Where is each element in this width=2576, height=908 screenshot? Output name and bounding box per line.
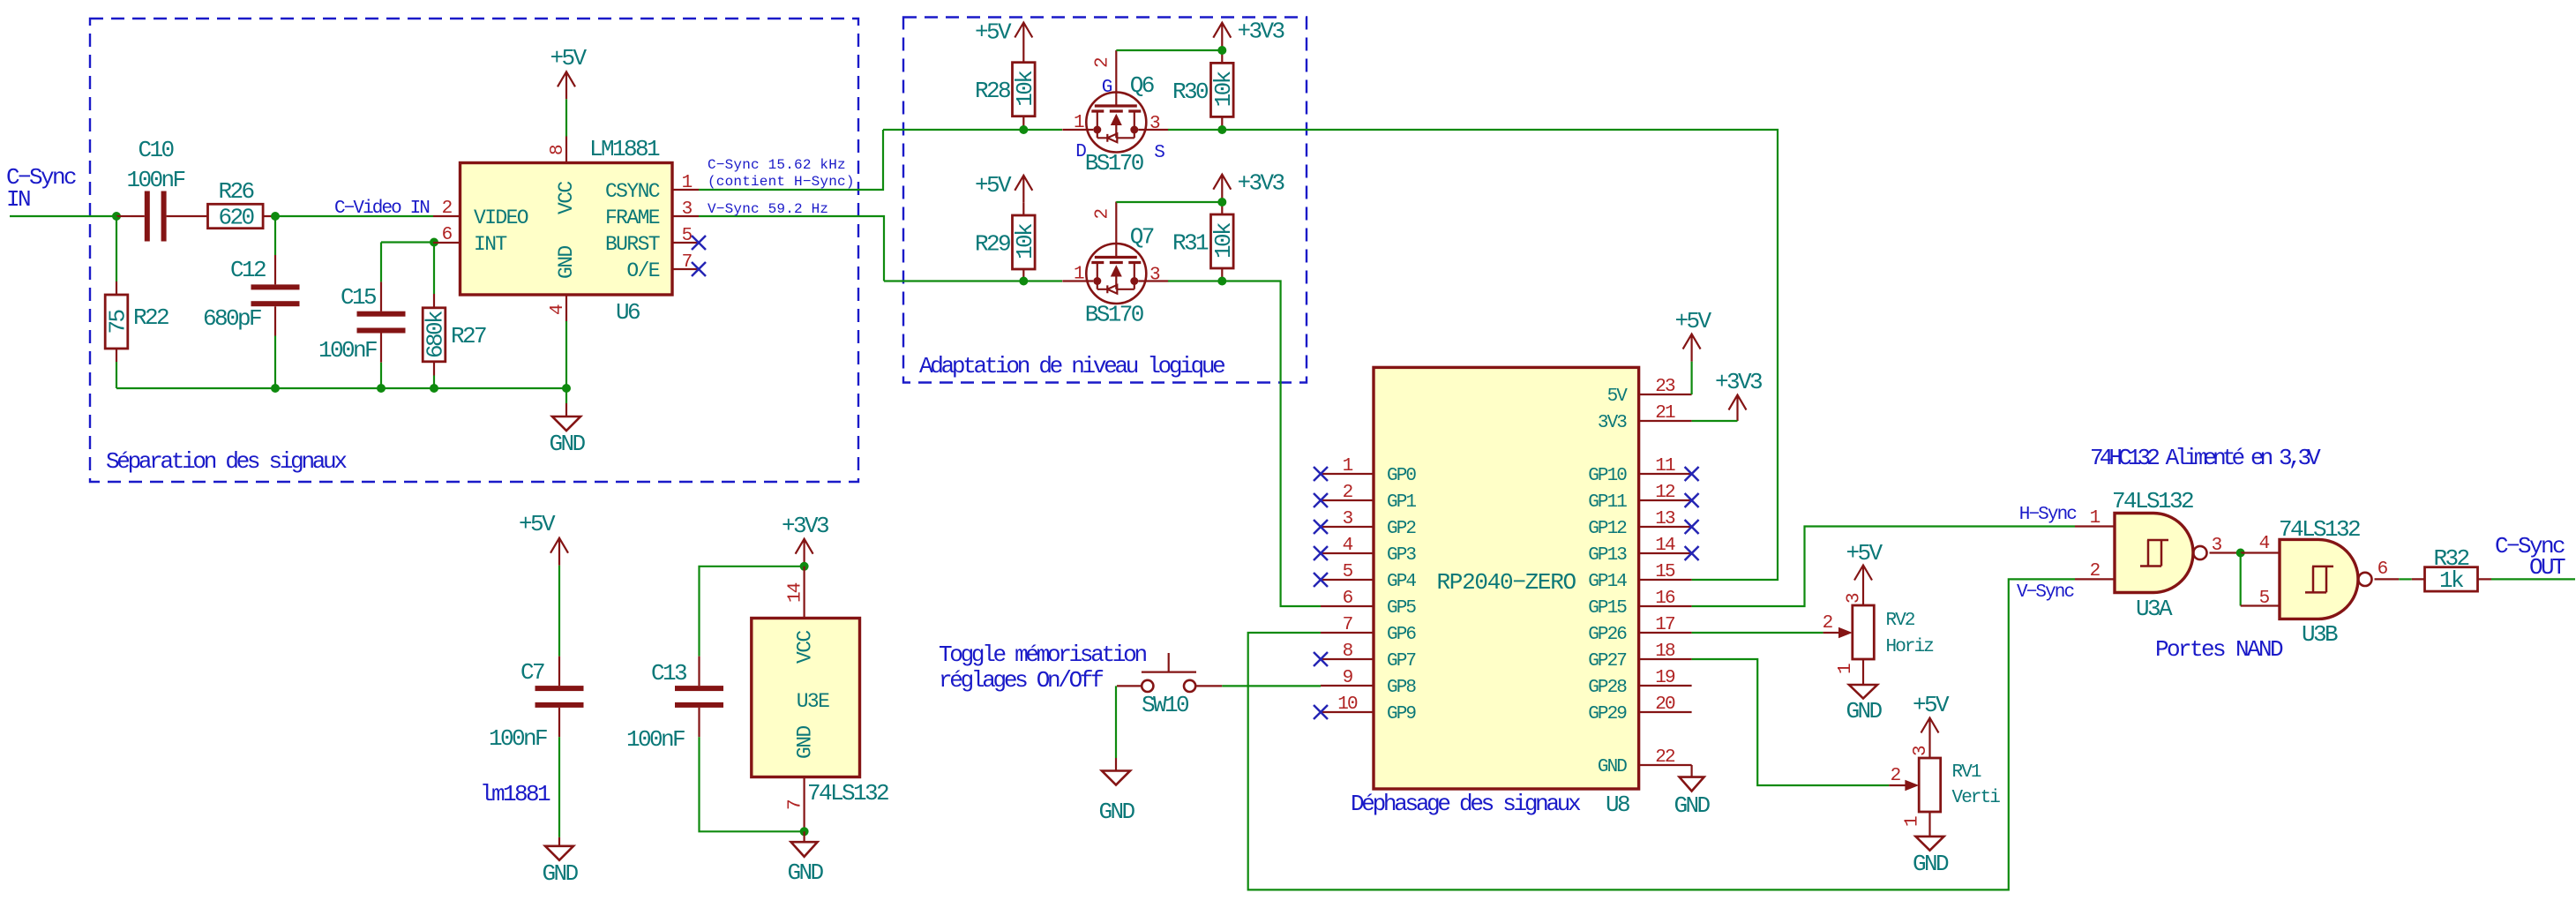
svg-text:GP4: GP4: [1387, 572, 1416, 592]
svg-text:R29: R29: [975, 231, 1010, 258]
svg-text:R26: R26: [218, 178, 253, 205]
svg-text:+3V3: +3V3: [782, 513, 828, 539]
svg-text:10k: 10k: [1012, 71, 1038, 107]
node junction C15/bus: [377, 384, 386, 393]
svg-text:R28: R28: [975, 78, 1010, 104]
svg-text:3: 3: [1149, 266, 1160, 286]
wire U3A out to U3B pin4: [2241, 552, 2280, 553]
svg-text:74LS132: 74LS132: [2279, 516, 2360, 543]
svg-text:GND: GND: [1913, 851, 1949, 877]
svg-text:10k: 10k: [1210, 71, 1237, 107]
svg-text:6: 6: [442, 225, 453, 245]
svg-text:OUT: OUT: [2529, 554, 2565, 581]
ground GND below U6: [549, 403, 585, 457]
svg-text:U3E: U3E: [797, 690, 829, 713]
svg-text:H−Sync: H−Sync: [2019, 505, 2078, 525]
svg-text:+5V: +5V: [550, 45, 587, 71]
svg-text:7: 7: [786, 800, 806, 810]
wire U3B out to R32: [2399, 578, 2412, 580]
ground GND below RV2: [1846, 672, 1882, 724]
svg-text:R27: R27: [451, 323, 486, 349]
svg-text:22: 22: [1655, 747, 1675, 768]
svg-text:VIDEO: VIDEO: [474, 206, 528, 229]
node junction at U6 pin6: [430, 238, 438, 247]
svg-text:GP8: GP8: [1387, 678, 1416, 698]
resistor R26 620: [196, 178, 275, 231]
svg-text:+5V: +5V: [1846, 540, 1883, 567]
wire GP26 to RV2 wiper: [1692, 632, 1823, 634]
power +5V above R28: [975, 19, 1032, 50]
svg-text:5: 5: [682, 226, 693, 246]
no-connect U8 left pin y=747: [1314, 652, 1328, 666]
wire SW10 to GP8: [1222, 685, 1321, 687]
power +3V3 above R31: [1213, 170, 1284, 202]
label C-Sync IN: [6, 164, 76, 213]
no-connect U8 right pin y=567: [1685, 493, 1699, 507]
svg-text:U8: U8: [1606, 792, 1629, 818]
svg-text:+5V: +5V: [1913, 692, 1950, 718]
no-connect U8 left pin y=567: [1314, 493, 1328, 507]
svg-text:18: 18: [1655, 642, 1675, 662]
svg-text:12: 12: [1655, 483, 1675, 503]
wire R32 to C-Sync OUT: [2491, 578, 2575, 580]
svg-text:C−Video IN: C−Video IN: [334, 199, 429, 219]
svg-text:GND: GND: [549, 431, 585, 457]
op-amp/IC U6 LM1881 sync separator: [433, 136, 699, 326]
wire junction to C10: [116, 215, 131, 217]
wire V-Sync output of U6 pin3: [699, 216, 884, 281]
svg-text:Verti: Verti: [1952, 788, 2001, 808]
svg-text:100nF: 100nF: [489, 725, 547, 752]
wire +3V3 junction to C13 top: [700, 567, 805, 657]
dashed box: Separation des signaux: [90, 19, 858, 482]
svg-text:GP13: GP13: [1588, 545, 1627, 566]
svg-text:2: 2: [2090, 561, 2100, 582]
svg-text:16: 16: [1655, 589, 1675, 609]
power +3V3 at U8 pin21: [1715, 369, 1762, 421]
wire Q7 source to GP5: [1168, 281, 1321, 607]
svg-text:GP1: GP1: [1387, 492, 1416, 513]
node junction R29 bottom: [1019, 277, 1028, 286]
node junction right of R26: [271, 212, 280, 221]
svg-text:GP27: GP27: [1588, 651, 1626, 672]
label C-Sync OUT: [2495, 533, 2565, 581]
svg-text:1: 1: [1343, 456, 1353, 477]
svg-text:Portes NAND: Portes NAND: [2155, 636, 2283, 663]
svg-text:LM1881: LM1881: [589, 136, 660, 162]
node junction U3E pin7/C13/GND: [800, 827, 809, 836]
svg-text:9: 9: [1343, 668, 1353, 688]
svg-text:3: 3: [682, 199, 693, 220]
svg-text:3V3: 3V3: [1598, 413, 1627, 433]
svg-text:V−Sync: V−Sync: [2017, 582, 2075, 603]
no-connect U8 left pin y=537: [1314, 467, 1328, 481]
svg-text:GP29: GP29: [1588, 704, 1627, 724]
ground GND at U8 pin22: [1674, 765, 1710, 819]
label C-Sync 15.62 kHz (contient H-Sync): [708, 157, 855, 190]
svg-text:6: 6: [1343, 589, 1353, 609]
node junction +3V3/C13/U3E pin14: [800, 562, 809, 571]
node junction at R22 top: [112, 212, 121, 221]
wire S-row of Q7 (from U6 pin3): [884, 280, 1062, 281]
no-connect U8 right pin y=597: [1685, 520, 1699, 534]
svg-text:BS170: BS170: [1085, 150, 1143, 176]
capacitor C13 100nF: [626, 657, 723, 753]
svg-text:1: 1: [1074, 265, 1084, 285]
svg-text:3: 3: [1149, 114, 1160, 134]
svg-text:D: D: [1075, 142, 1086, 162]
svg-text:GP15: GP15: [1588, 598, 1627, 619]
wire R26 to U6 pin2: [275, 215, 433, 217]
resistor R28 10k pull-up: [975, 50, 1038, 131]
svg-text:U6: U6: [616, 299, 640, 326]
wire 5V pin23: [1690, 362, 1692, 394]
svg-text:GP3: GP3: [1387, 545, 1416, 566]
svg-text:14: 14: [786, 582, 806, 603]
svg-text:14: 14: [1655, 536, 1675, 556]
svg-text:réglages On/Off: réglages On/Off: [939, 667, 1103, 694]
potentiometer RV1 Verti: [1889, 746, 2000, 828]
node junction R30 bottom: [1217, 125, 1226, 134]
svg-text:17: 17: [1655, 615, 1674, 635]
svg-text:7: 7: [1343, 615, 1352, 635]
svg-text:GP0: GP0: [1387, 466, 1416, 486]
NAND gate U3A 74LS132: [2075, 488, 2241, 622]
no-connect U6 pin5: [692, 236, 706, 250]
node junction R31 bottom: [1217, 277, 1226, 286]
svg-text:GND: GND: [787, 859, 823, 886]
svg-text:GP11: GP11: [1588, 492, 1627, 513]
node junction R27/bus: [430, 384, 438, 393]
svg-text:1: 1: [1836, 664, 1856, 674]
svg-text:C12: C12: [230, 257, 266, 283]
svg-text:7: 7: [682, 252, 692, 273]
svg-text:Toggle mémorisation: Toggle mémorisation: [939, 642, 1146, 668]
svg-text:23: 23: [1655, 377, 1675, 397]
svg-text:Q7: Q7: [1130, 224, 1154, 251]
svg-text:GP14: GP14: [1588, 572, 1627, 592]
svg-text:74LS132: 74LS132: [2112, 488, 2193, 514]
wire SW10 to GND: [1115, 686, 1117, 758]
no-connect U6 pin7: [692, 262, 706, 276]
NAND gate U3B 74LS132: [2259, 516, 2400, 648]
resistor R32 1k: [2412, 545, 2491, 594]
wire +5V to C7: [558, 566, 560, 657]
node junction U3A output: [2236, 549, 2245, 558]
wire D-row of Q6: [883, 129, 1062, 131]
potentiometer RV2 Horiz: [1823, 593, 1934, 675]
svg-text:G: G: [1102, 78, 1112, 98]
power +5V above RV2: [1846, 540, 1883, 593]
svg-text:+5V: +5V: [975, 19, 1012, 46]
svg-text:VCC: VCC: [794, 631, 817, 664]
svg-text:GND: GND: [1098, 799, 1134, 825]
svg-text:Horiz: Horiz: [1886, 637, 1934, 657]
svg-text:U3A: U3A: [2136, 596, 2173, 622]
svg-text:680pF: 680pF: [203, 305, 261, 332]
svg-text:+5V: +5V: [1674, 308, 1711, 334]
power +5V above U8 pin23: [1674, 308, 1711, 362]
svg-text:10k: 10k: [1210, 222, 1237, 259]
resistor R22 75: [105, 216, 169, 388]
svg-text:100nF: 100nF: [318, 337, 377, 364]
svg-text:1: 1: [682, 173, 693, 193]
node junction R30 top gate net: [1217, 46, 1226, 55]
svg-text:GND: GND: [542, 860, 578, 887]
svg-text:GP10: GP10: [1588, 466, 1627, 486]
ground GND below SW10: [1098, 758, 1134, 825]
svg-text:+5V: +5V: [975, 172, 1012, 199]
svg-text:3: 3: [1343, 509, 1353, 529]
dashed box: Adaptation de niveau logique: [903, 18, 1307, 383]
wire Q7 gate net to R31: [1116, 201, 1222, 203]
svg-text:GP6: GP6: [1387, 625, 1416, 645]
svg-text:5: 5: [2259, 589, 2270, 609]
ground GND below U3E: [787, 831, 823, 886]
svg-text:15: 15: [1655, 562, 1675, 582]
svg-text:620: 620: [218, 205, 253, 231]
capacitor C10 100nF: [126, 137, 196, 242]
svg-text:C10: C10: [138, 137, 173, 163]
wire C7 to GND: [558, 737, 560, 837]
power +3V3 above R30: [1213, 19, 1284, 50]
svg-text:BS170: BS170: [1085, 302, 1143, 328]
wire ground bus of box1: [116, 387, 566, 389]
svg-text:1: 1: [1903, 816, 1923, 827]
wire 3V3 pin21: [1692, 420, 1738, 422]
svg-text:75: 75: [105, 310, 131, 334]
svg-text:GP2: GP2: [1387, 519, 1416, 539]
power +5V above C7: [519, 511, 568, 566]
svg-text:74LS132: 74LS132: [807, 780, 888, 807]
svg-text:74HC132 Alimenté en 3,3V: 74HC132 Alimenté en 3,3V: [2090, 445, 2321, 471]
svg-text:GP7: GP7: [1387, 651, 1415, 672]
svg-text:C−Sync 15.62 kHz: C−Sync 15.62 kHz: [708, 157, 846, 173]
svg-text:Q6: Q6: [1130, 72, 1154, 99]
node junction R31 top gate net: [1217, 198, 1226, 206]
svg-text:100nF: 100nF: [126, 167, 184, 193]
wire C-Sync output of U6 pin1: [699, 130, 883, 190]
ground GND below RV1: [1913, 825, 1949, 877]
svg-text:RP2040−ZERO: RP2040−ZERO: [1437, 569, 1576, 596]
svg-text:GND: GND: [1598, 757, 1627, 777]
svg-text:2: 2: [1891, 766, 1901, 786]
svg-text:INT: INT: [474, 233, 506, 256]
wire GP15 to H-Sync: [1692, 527, 2075, 607]
svg-text:3: 3: [1845, 593, 1865, 604]
power +5V above R29: [975, 172, 1032, 203]
svg-text:C15: C15: [341, 284, 376, 311]
capacitor C15 100nF: [318, 243, 406, 389]
svg-text:10k: 10k: [1012, 223, 1038, 259]
svg-text:GND: GND: [1674, 792, 1710, 819]
wire U6 pin6 to C15: [381, 241, 434, 243]
svg-text:CSYNC: CSYNC: [605, 180, 660, 203]
svg-text:GP5: GP5: [1387, 598, 1416, 619]
no-connect U8 left pin y=657: [1314, 573, 1328, 587]
svg-text:Déphasage des signaux: Déphasage des signaux: [1351, 791, 1581, 817]
wire U3A out down to U3B pin5: [2240, 553, 2242, 606]
svg-text:3: 3: [1911, 746, 1931, 756]
power +5V above U6: [550, 45, 587, 99]
svg-text:680k: 680k: [423, 311, 449, 358]
svg-text:20: 20: [1655, 694, 1675, 715]
svg-text:5V: 5V: [1607, 386, 1629, 407]
node junction C12/bus: [271, 384, 280, 393]
svg-text:U3B: U3B: [2302, 621, 2338, 648]
ground GND below C7: [542, 837, 578, 887]
no-connect U8 right pin y=627: [1685, 546, 1699, 560]
svg-text:SW10: SW10: [1142, 692, 1188, 718]
resistor R30 10k pull-up: [1172, 50, 1237, 130]
svg-text:2: 2: [1823, 613, 1833, 634]
svg-text:GP12: GP12: [1588, 519, 1627, 539]
svg-text:8: 8: [1343, 642, 1353, 662]
wire +5V to U6 pin8: [565, 99, 567, 136]
svg-text:R30: R30: [1172, 79, 1208, 105]
wire GP6 to V-Sync bottom route: [1248, 579, 2075, 889]
wire junction down to R27: [433, 243, 435, 295]
svg-text:V−Sync 59.2 Hz: V−Sync 59.2 Hz: [708, 201, 828, 217]
svg-text:BURST: BURST: [605, 233, 660, 256]
svg-text:1: 1: [2090, 508, 2100, 529]
transistor Q6 BS170: [1062, 50, 1168, 176]
no-connect U8 left pin y=807: [1314, 705, 1328, 719]
svg-text:+5V: +5V: [519, 511, 556, 537]
svg-text:C7: C7: [520, 659, 544, 686]
svg-text:11: 11: [1655, 456, 1675, 477]
svg-text:21: 21: [1655, 403, 1675, 424]
svg-text:8: 8: [548, 145, 568, 155]
no-connect U8 right pin y=537: [1685, 467, 1699, 481]
svg-text:4: 4: [2259, 534, 2270, 554]
svg-text:GND: GND: [555, 246, 578, 279]
power +5V above RV1: [1913, 692, 1950, 746]
svg-text:C13: C13: [651, 660, 686, 687]
svg-text:VCC: VCC: [555, 182, 578, 214]
wire C-Sync IN input: [10, 215, 116, 217]
svg-text:10: 10: [1337, 694, 1358, 715]
svg-text:+3V3: +3V3: [1238, 19, 1284, 45]
node junction GND/bus: [562, 384, 571, 393]
svg-text:S: S: [1154, 143, 1164, 163]
resistor R31 10k pull-up: [1172, 202, 1237, 281]
svg-text:Adaptation de niveau logique: Adaptation de niveau logique: [919, 353, 1224, 379]
svg-text:GP26: GP26: [1588, 625, 1627, 645]
svg-text:RV2: RV2: [1886, 611, 1915, 631]
svg-text:2: 2: [442, 199, 453, 219]
no-connect U8 left pin y=597: [1314, 520, 1328, 534]
svg-text:lm1881: lm1881: [480, 781, 550, 807]
IC U3E 74LS132 power unit: [752, 567, 888, 832]
wire Q6 gate net to R30: [1116, 49, 1222, 51]
svg-text:RV1: RV1: [1952, 762, 1981, 783]
svg-text:O/E: O/E: [626, 259, 659, 282]
svg-text:3: 3: [2212, 536, 2222, 556]
svg-text:19: 19: [1655, 668, 1675, 688]
svg-text:GND: GND: [794, 726, 817, 759]
svg-text:6: 6: [2378, 559, 2388, 580]
resistor R29 10k pull-up: [975, 203, 1038, 281]
switch SW10 push button: [1117, 653, 1222, 718]
transistor Q7 BS170: [1062, 202, 1168, 328]
svg-text:Séparation des signaux: Séparation des signaux: [106, 448, 347, 475]
svg-text:1k: 1k: [2439, 567, 2464, 594]
svg-text:4: 4: [548, 304, 568, 315]
node junction R28 bottom: [1019, 125, 1028, 134]
svg-text:100nF: 100nF: [626, 726, 685, 753]
wire U6 pin4 to bus: [565, 321, 567, 403]
note Toggle memorisation reglages On/Off: [939, 642, 1146, 694]
capacitor C7 100nF: [489, 657, 584, 752]
svg-text:+3V3: +3V3: [1715, 369, 1762, 395]
svg-text:1: 1: [1074, 113, 1084, 133]
svg-text:5: 5: [1343, 562, 1353, 582]
wire GP27 to RV1 wiper: [1692, 659, 1890, 785]
svg-text:2: 2: [1092, 209, 1112, 220]
svg-text:R22: R22: [133, 304, 168, 331]
svg-text:R31: R31: [1172, 230, 1209, 257]
svg-text:FRAME: FRAME: [605, 206, 660, 229]
svg-text:GP9: GP9: [1387, 704, 1416, 724]
IC U8 RP2040-ZERO: [1321, 367, 1692, 818]
svg-text:GP28: GP28: [1588, 678, 1627, 698]
svg-text:GND: GND: [1846, 698, 1882, 724]
resistor R27 680k: [423, 294, 487, 388]
svg-text:+3V3: +3V3: [1238, 170, 1284, 197]
wire C13 bottom to GND junction: [700, 737, 805, 831]
svg-text:13: 13: [1655, 509, 1675, 529]
capacitor C12 680pF: [203, 216, 300, 388]
power +3V3 above U3E: [782, 513, 828, 567]
svg-text:IN: IN: [6, 186, 30, 213]
svg-text:2: 2: [1092, 57, 1112, 68]
svg-text:4: 4: [1343, 536, 1353, 556]
wire Q6 source to GP14 net: [1168, 130, 1778, 580]
no-connect U8 left pin y=627: [1314, 546, 1328, 560]
svg-text:(contient H−Sync): (contient H−Sync): [708, 174, 855, 190]
svg-text:2: 2: [1343, 483, 1353, 503]
